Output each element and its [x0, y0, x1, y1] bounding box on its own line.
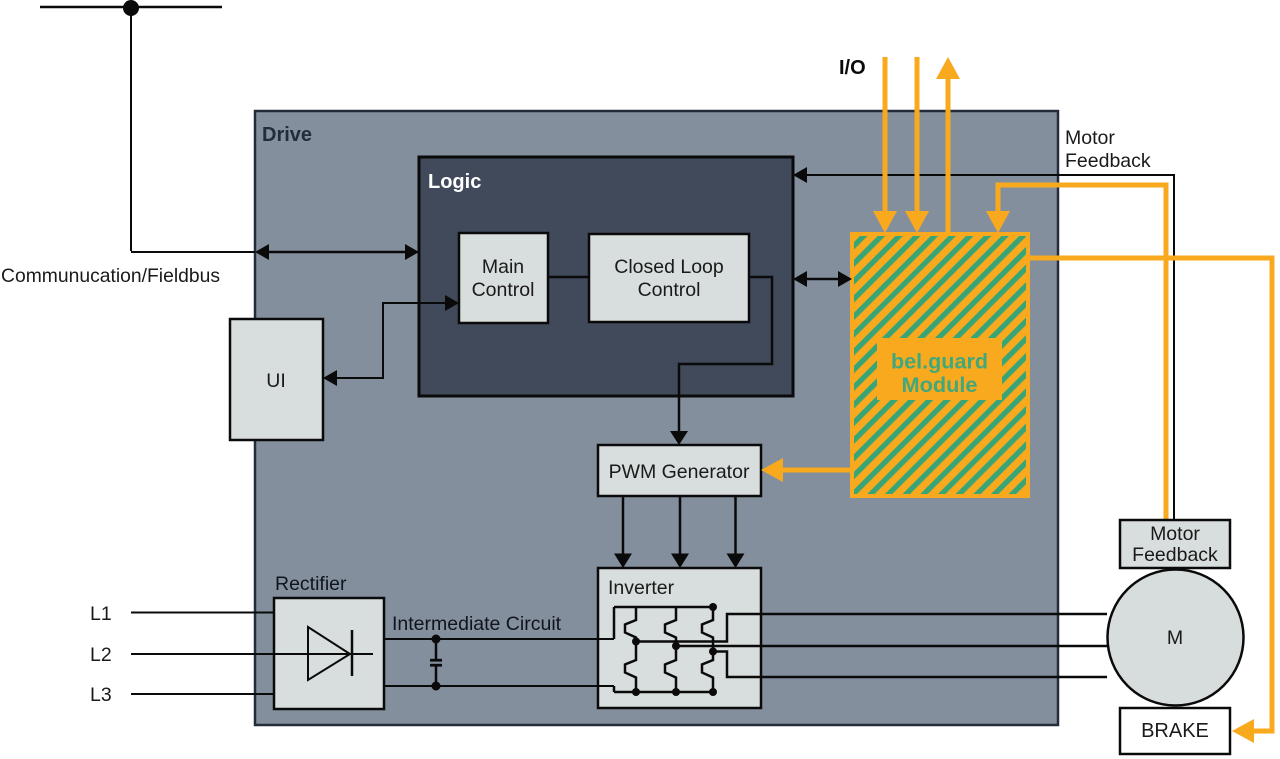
svg-text:BRAKE: BRAKE [1141, 720, 1209, 742]
svg-text:Feedback: Feedback [1065, 150, 1151, 172]
svg-text:Intermediate Circuit: Intermediate Circuit [392, 613, 562, 635]
svg-text:Motor: Motor [1150, 523, 1200, 545]
svg-text:L2: L2 [90, 644, 112, 666]
svg-text:UI: UI [266, 370, 286, 392]
svg-text:I/O: I/O [839, 57, 866, 79]
svg-text:Control: Control [472, 279, 535, 301]
svg-text:Logic: Logic [428, 171, 481, 193]
svg-text:M: M [1167, 627, 1183, 649]
svg-text:L3: L3 [90, 684, 112, 706]
svg-text:L1: L1 [90, 603, 112, 625]
svg-text:PWM Generator: PWM Generator [609, 461, 750, 483]
svg-text:Inverter: Inverter [608, 577, 675, 599]
svg-text:Drive: Drive [262, 124, 312, 146]
svg-text:Communucation/Fieldbus: Communucation/Fieldbus [1, 265, 220, 287]
svg-text:Main: Main [482, 256, 524, 278]
svg-text:Module: Module [902, 374, 978, 397]
svg-text:Control: Control [638, 279, 701, 301]
svg-text:Closed Loop: Closed Loop [614, 256, 724, 278]
svg-text:Feedback: Feedback [1132, 544, 1218, 566]
svg-text:Rectifier: Rectifier [275, 573, 347, 595]
svg-text:Motor: Motor [1065, 127, 1115, 149]
svg-text:bel.guard: bel.guard [891, 351, 988, 374]
